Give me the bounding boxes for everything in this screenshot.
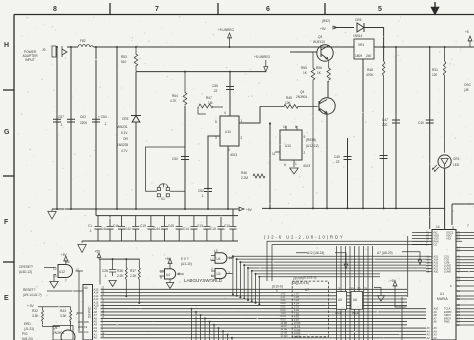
svg-text:28 PIN: 28 PIN [292, 277, 303, 281]
wire data line 2 [340, 246, 342, 340]
svg-text:3: 3 [228, 271, 230, 275]
svg-text:C1: C1 [88, 224, 92, 228]
wire U12 output to U5 [76, 270, 84, 272]
svg-text:WN231: WN231 [117, 125, 128, 129]
svg-text:C40: C40 [418, 121, 424, 125]
capacitor C57 [53, 119, 61, 122]
svg-text:2: 2 [304, 151, 306, 155]
svg-text:7: 7 [155, 6, 159, 13]
pin MARIA A9 b [456, 311, 474, 313]
wire crossover 8 [259, 277, 380, 304]
svg-text:R48: R48 [367, 68, 373, 72]
wire connector to inductor [67, 46, 78, 48]
wire bus drop 7 [218, 328, 220, 340]
svg-text:2.2K: 2.2K [130, 274, 137, 278]
svg-text:4: 4 [224, 111, 226, 115]
address pin labels A15-A0 [94, 288, 99, 340]
svg-text:C28: C28 [102, 269, 108, 273]
svg-text:12: 12 [210, 258, 214, 262]
svg-text:(J1-31): (J1-31) [24, 327, 34, 331]
capacitor C19 [147, 216, 154, 241]
ground return bus left [52, 208, 238, 210]
LED CR2 [438, 155, 451, 168]
gate U12 [58, 265, 73, 278]
svg-text:U1: U1 [440, 292, 444, 296]
svg-text:C49: C49 [334, 155, 340, 159]
svg-text:G: G [4, 129, 10, 136]
wire bus drop 8 [222, 331, 224, 340]
svg-text:A6: A6 [434, 319, 438, 323]
capacitor C16 [118, 216, 125, 241]
pin MARIA A6 b [456, 320, 474, 322]
cap row top rail [96, 215, 238, 217]
svg-text:(U1-10): (U1-10) [181, 262, 192, 266]
svg-text:9: 9 [160, 276, 162, 280]
pin MARIA R/W [412, 240, 432, 242]
pin MARIA IN2 [412, 231, 432, 233]
svg-text:O2: O2 [434, 242, 438, 246]
pin MARIA extra 291 [456, 290, 474, 292]
svg-text:(U10/2-5): (U10/2-5) [303, 276, 316, 280]
wire drop 2 [70, 47, 72, 209]
svg-text:R32: R32 [32, 309, 38, 313]
ground below U10b [290, 160, 299, 174]
wire CRESET to gate [44, 267, 56, 269]
pin MARIA right OSC2 [456, 231, 474, 233]
wire crossover 7 [256, 274, 381, 303]
svg-text:P/G: P/G [22, 332, 28, 336]
svg-text:.1: .1 [60, 123, 63, 127]
svg-text:6: 6 [284, 163, 286, 167]
svg-text:2200: 2200 [80, 121, 87, 125]
wire C49 drop [347, 138, 349, 209]
box corner right [452, 204, 474, 225]
wire R47 feedback loop [198, 107, 223, 114]
wire address bus row A6 [101, 317, 427, 319]
wires U4c [211, 271, 232, 276]
svg-text:240: 240 [366, 54, 372, 58]
svg-text:U4: U4 [217, 257, 221, 261]
svg-text:C62: C62 [80, 115, 86, 119]
svg-text:R56: R56 [316, 66, 322, 70]
wire address bus row A5 [101, 321, 408, 323]
ic U7 28-pin socket [292, 281, 328, 337]
svg-text:4013: 4013 [230, 153, 237, 157]
wire bus drop 2 [195, 312, 197, 340]
svg-text:R47: R47 [206, 96, 212, 100]
svg-text:3: 3 [215, 136, 217, 140]
pin MARIA VDD [412, 234, 432, 236]
svg-text:+5V: +5V [61, 253, 68, 257]
pin MARIA right VDO [456, 234, 474, 236]
wires U4b [211, 256, 234, 261]
wire crossover 6 [252, 271, 426, 302]
svg-text:U4: U4 [166, 273, 170, 277]
capacitor C45 [176, 216, 183, 241]
svg-text:220: 220 [382, 123, 388, 127]
svg-text:C10: C10 [224, 224, 230, 228]
wire left of U5 [78, 271, 80, 331]
svg-text:.1: .1 [104, 122, 107, 126]
wire bus drop 3 [200, 315, 202, 340]
wire address bus row A13 [101, 295, 408, 297]
svg-text:1N5235: 1N5235 [117, 143, 128, 147]
svg-text:21: 21 [364, 287, 368, 291]
wire data line 8 [367, 246, 369, 340]
wire data line 6 [358, 246, 360, 340]
svg-text:U10: U10 [225, 130, 231, 134]
svg-text:+9 UNREG: +9 UNREG [218, 28, 235, 32]
wire U10a pin6 down [227, 146, 229, 209]
svg-text:1: 1 [295, 162, 297, 166]
svg-text:40: 40 [84, 286, 88, 290]
wire bus drop 10 [231, 338, 233, 340]
pushbutton S1 [146, 147, 186, 191]
ground below U12 [50, 282, 58, 289]
wire data line 3 [345, 246, 347, 340]
zone tick top 8/7 [109, 3, 111, 15]
svg-text:.22: .22 [213, 89, 218, 93]
pin MARIA right VS3 [456, 237, 474, 239]
wire CR6 to rail [364, 28, 384, 48]
svg-text:2N3904: 2N3904 [296, 95, 307, 99]
svg-text:S1: S1 [161, 197, 165, 201]
wire address bus row A7 [101, 314, 427, 316]
wire data line 5 [354, 246, 356, 340]
ic U6 [351, 292, 363, 310]
bypass capacitor row [88, 216, 237, 241]
svg-text:(R51B): (R51B) [306, 138, 316, 142]
svg-text:A2: A2 [434, 336, 438, 340]
pin MARIA extra 296 [456, 295, 474, 297]
svg-text:J9: J9 [42, 48, 46, 52]
wire LED down [444, 168, 446, 229]
svg-text:U5: U5 [338, 298, 342, 302]
wire arrow +5unreg [264, 60, 268, 72]
svg-text:R45: R45 [286, 96, 292, 100]
svg-text:+9V: +9V [320, 27, 327, 31]
svg-text:.1: .1 [104, 274, 107, 278]
svg-text:6: 6 [266, 6, 270, 13]
svg-text:E: E [4, 295, 9, 302]
zone tick left H/G [3, 89, 14, 91]
wire address bus row A0 [101, 337, 427, 339]
svg-text:A12 (U8-24): A12 (U8-24) [307, 251, 324, 255]
wire address bus row A9 [101, 308, 427, 310]
svg-text:3.3K: 3.3K [60, 314, 67, 318]
svg-text:C1b: C1b [113, 224, 119, 228]
svg-text:H: H [4, 42, 9, 49]
svg-text:A7 (U8-20): A7 (U8-20) [377, 251, 393, 255]
wire address bus row A8 [101, 311, 427, 313]
pin MARIA A8 b [456, 314, 474, 316]
svg-text:6: 6 [276, 289, 278, 293]
svg-text:W14: W14 [352, 311, 359, 315]
svg-text:E X T: E X T [181, 257, 189, 261]
svg-text:5.1V: 5.1V [121, 131, 128, 135]
ground below C28 [109, 281, 116, 287]
svg-text:U10: U10 [285, 144, 291, 148]
svg-text:A10: A10 [434, 270, 439, 274]
svg-text:(J8: (J8 [464, 88, 469, 92]
wire crossover 2 [237, 259, 426, 296]
pin MARIA A10 b [456, 308, 474, 310]
marker arrow top [432, 2, 439, 14]
svg-text:FRB: FRB [84, 321, 89, 324]
svg-text:OSC: OSC [464, 83, 472, 87]
svg-text:C42: C42 [125, 227, 131, 231]
svg-text:Q4: Q4 [300, 90, 304, 94]
wire address bus row A15 [101, 288, 408, 290]
svg-text:2: 2 [241, 136, 243, 140]
svg-text:OR: OR [123, 137, 128, 141]
svg-text:U4: U4 [217, 272, 221, 276]
capacitor C15 [218, 216, 225, 241]
svg-text:14: 14 [66, 260, 70, 264]
wire address bus row A11 [101, 301, 408, 303]
wire C55 drop [229, 72, 231, 116]
pin MARIA A15 [426, 256, 474, 258]
wire address bus row A4 [101, 324, 408, 326]
svg-text:F82: F82 [80, 39, 86, 43]
ic U5 DSYNC [83, 285, 93, 340]
ground arrow bottom rail [78, 241, 86, 253]
svg-text:C52: C52 [198, 189, 204, 193]
transistor Q5 [53, 326, 73, 340]
wire U10b pin14 up [286, 126, 297, 130]
svg-text:R31: R31 [432, 68, 438, 72]
svg-text:R46: R46 [241, 171, 247, 175]
svg-text:RESET?: RESET? [23, 288, 36, 292]
svg-text:4.7K: 4.7K [170, 99, 177, 103]
svg-text:C55: C55 [212, 84, 218, 88]
ground arrow left end [48, 209, 56, 219]
svg-text:RW2: RW2 [444, 319, 450, 323]
svg-text:1M: 1M [208, 101, 213, 105]
wire drop 4 [116, 47, 118, 209]
svg-text:U7: U7 [305, 288, 309, 292]
svg-text:INPUT: INPUT [25, 58, 35, 62]
zone tick top 6/5 [324, 3, 326, 15]
wire CR6 node down [383, 47, 385, 61]
svg-text:1N914: 1N914 [353, 34, 363, 38]
capacitor C41 [107, 216, 114, 241]
regulator VR1 [354, 39, 374, 59]
wire left of maria [402, 236, 408, 340]
wire bus drop 1 [191, 309, 193, 340]
svg-text:7: 7 [467, 224, 469, 228]
pin MARIA extra 277.5 [456, 277, 474, 279]
svg-text:Q3: Q3 [318, 35, 322, 39]
gate U4b [215, 253, 227, 264]
pin MARIA A14 [426, 259, 474, 261]
svg-text:20: 20 [350, 287, 354, 291]
svg-text:R36: R36 [117, 269, 123, 273]
wire bus drop 4 [204, 318, 206, 340]
svg-text:4.7V: 4.7V [121, 149, 128, 153]
svg-text:F: F [4, 219, 9, 226]
svg-text:11: 11 [272, 152, 276, 156]
wire bus drop 5 [209, 322, 211, 340]
wire address bus row A14 [101, 292, 408, 294]
svg-text:CLK: CLK [84, 331, 89, 334]
svg-text:+5V: +5V [95, 250, 102, 254]
wire U4a output [177, 273, 184, 275]
wire address bus row A3 [101, 327, 427, 329]
wire crossover 3 [240, 262, 426, 297]
wire data line 4 [349, 246, 351, 340]
svg-text:W16: W16 [335, 311, 342, 315]
svg-text:R64: R64 [172, 94, 178, 98]
zone tick left G/F [3, 175, 14, 177]
wire U10a pin3 [208, 136, 220, 209]
svg-text:10K: 10K [285, 101, 292, 105]
wire drop C40 [429, 47, 431, 229]
wire VR1 out [374, 46, 380, 48]
svg-text:8: 8 [53, 6, 57, 13]
svg-text:2: 2 [211, 267, 213, 271]
ground below U4a [166, 279, 173, 289]
svg-text:R55: R55 [301, 66, 307, 70]
svg-text:[J4](U2-5,6): [J4](U2-5,6) [292, 281, 309, 285]
ground return bus right [262, 207, 445, 209]
svg-text:14 GN: 14 GN [281, 335, 288, 338]
wires U4a inputs [160, 271, 165, 276]
svg-text:C14: C14 [183, 227, 189, 231]
svg-text:L3: L3 [214, 249, 218, 253]
svg-text:R37: R37 [130, 269, 136, 273]
svg-text:(U4D-13): (U4D-13) [19, 270, 32, 274]
svg-text:+5 UNREG: +5 UNREG [254, 55, 271, 59]
svg-text:+5: +5 [465, 30, 469, 34]
wire data line 7 [363, 246, 365, 340]
capacitor C46 [380, 156, 388, 159]
wire +9v node [337, 27, 354, 29]
capacitor C54 [92, 119, 100, 122]
zone tick top 7/6 [217, 3, 219, 15]
svg-text:VS3: VS3 [446, 236, 451, 240]
capacitor C44 [161, 216, 168, 241]
svg-text:(U9-14,U1-?): (U9-14,U1-?) [23, 293, 42, 297]
svg-text:+ 5V: + 5V [27, 304, 35, 308]
svg-text:120: 120 [432, 73, 438, 77]
wire wrap RDY [267, 241, 462, 281]
svg-text:.1: .1 [201, 194, 204, 198]
svg-text:2: 2 [338, 287, 340, 291]
svg-text:14 D2: 14 D2 [294, 335, 301, 338]
wire VR1 gnd down [362, 59, 364, 208]
svg-text:MARIA: MARIA [437, 297, 448, 301]
capacitor C14 [190, 216, 197, 241]
pin MARIA extra 247.5 [456, 247, 474, 249]
gate U4a [165, 269, 176, 279]
wire bus drop 9 [227, 335, 229, 340]
wire R64 down [184, 106, 186, 209]
svg-text:WJE110: WJE110 [313, 40, 325, 44]
wire data line 9 [372, 246, 374, 340]
wire rail to U5 [99, 259, 101, 284]
pin MARIA extra 280.5 [456, 280, 474, 282]
pin MARIA extra 325 [456, 324, 474, 326]
ground near maria [374, 288, 385, 302]
wire crossover 4 [244, 265, 426, 299]
svg-text:4013: 4013 [303, 164, 310, 168]
net arrow +5V mid [238, 207, 244, 211]
ic U5 [337, 292, 347, 310]
capacitor C42 [132, 216, 139, 241]
wire address bus row A2 [101, 330, 427, 332]
wire RESET to U5 [47, 290, 83, 292]
wire data line 1 [336, 246, 338, 340]
svg-text:VR1: VR1 [358, 43, 364, 47]
pin MARIA extra 250.5 [456, 250, 474, 252]
wire bus drop 6 [213, 325, 215, 340]
pin MARIA A12 [426, 265, 474, 267]
svg-text:+5V: +5V [246, 208, 253, 212]
wire address bus row A10 [101, 304, 408, 306]
svg-text:14: 14 [436, 225, 440, 229]
pin MARIA extra 299 [456, 298, 474, 300]
svg-text:LUM0: LUM0 [444, 270, 451, 274]
capacitor C62 [67, 119, 75, 122]
pin numbers U5 bus [102, 287, 105, 339]
pin MARIA O2 [412, 243, 432, 245]
pin MARIA A7 b [456, 317, 474, 319]
wire crossover 1 [233, 256, 426, 294]
+5 unreg rail [136, 71, 266, 73]
junction dots ground bus [56, 208, 58, 210]
svg-text:CR5: CR5 [122, 117, 129, 121]
svg-text:C57: C57 [58, 115, 64, 119]
svg-text:C45: C45 [168, 224, 174, 228]
svg-text:ERD: ERD [24, 322, 31, 326]
wire drop 3 [95, 47, 97, 209]
svg-text:R43: R43 [60, 309, 66, 313]
pin labels U7 left column [281, 293, 288, 338]
wire drop C47 [395, 47, 397, 208]
svg-text:(R52): (R52) [322, 19, 330, 23]
pin MARIA VSS [412, 237, 432, 239]
zone tick left F/E [3, 261, 14, 263]
svg-text:C47: C47 [382, 118, 388, 122]
flip-flop U10a [220, 116, 239, 146]
wire crossover 5 [248, 268, 426, 300]
pin MARIA A10 [426, 271, 474, 273]
junction dots top rails [56, 46, 58, 48]
pin MARIA extra 305 [456, 304, 474, 306]
wire address bus row A1 [101, 334, 427, 336]
svg-text:510: 510 [121, 60, 127, 64]
border frame top [14, 14, 474, 16]
wire gate input 13 to ground [54, 275, 56, 282]
flip-flop U10b [280, 130, 302, 160]
svg-text:R53: R53 [121, 55, 127, 59]
border frame left [13, 15, 15, 340]
zener diode CR5 [131, 72, 141, 209]
pin MARIA A13 [426, 262, 474, 264]
gate U4c [215, 269, 226, 279]
svg-text:C19: C19 [140, 224, 146, 228]
svg-text:U6: U6 [353, 298, 357, 302]
svg-text:.22: .22 [335, 160, 340, 164]
svg-text:1: 1 [241, 119, 243, 123]
svg-text:(U12-12): (U12-12) [306, 144, 319, 148]
svg-text:C50: C50 [172, 157, 178, 161]
+5 distribution rail [99, 258, 140, 260]
svg-text:CR6: CR6 [355, 18, 362, 22]
wire rail link [96, 209, 233, 216]
svg-text:C4L: C4L [101, 227, 107, 231]
